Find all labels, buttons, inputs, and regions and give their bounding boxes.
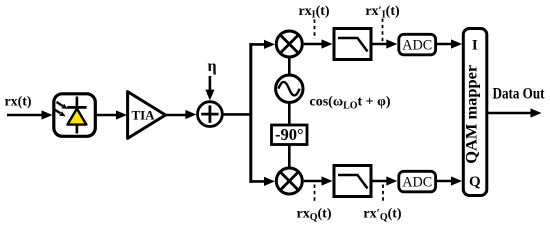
wire photodiode to TIA (95, 114, 118, 117)
mixer bottom (Q) (276, 168, 302, 194)
wire ADC to QAM mapper Q (436, 180, 454, 183)
wire mixer to oscillator (288, 57, 291, 75)
oscillator LO (276, 75, 303, 102)
svg-text:TIA: TIA (131, 107, 155, 122)
wire eta arrow into summer (209, 76, 212, 92)
svg-text:-90°: -90° (275, 125, 304, 144)
node rx_I(t) dashed probe line (314, 20, 316, 40)
svg-text:Data Out: Data Out (493, 86, 546, 103)
wire TIA to summer (166, 114, 188, 117)
wire top mixer to LPF (304, 43, 324, 46)
wire ADC to QAM mapper I (436, 43, 454, 46)
wire LPF to ADC bottom (371, 180, 389, 183)
svg-text:I: I (472, 38, 478, 54)
filter LPF bottom (334, 166, 371, 197)
QAM mapper box (463, 29, 487, 196)
mixer top (I) (276, 31, 302, 57)
wire oscillator to -90 box (288, 102, 291, 125)
wire split to bottom mixer (250, 180, 267, 183)
svg-text:ADC: ADC (402, 175, 432, 191)
svg-text:η: η (207, 58, 216, 75)
node rx'_Q(t) dashed probe line (382, 185, 384, 204)
summing node (198, 102, 223, 127)
phase shifter -90deg box (272, 125, 308, 145)
node rx_Q(t) dashed probe line (314, 185, 316, 204)
wire vertical split line (249, 43, 252, 183)
op-amp TIA (128, 92, 166, 139)
wire -90 box to bottom mixer (288, 145, 291, 169)
node rx'_I(t) dashed probe line (382, 19, 384, 42)
filter LPF top (334, 29, 371, 60)
ADC bottom (399, 171, 436, 192)
svg-text:Q: Q (469, 174, 481, 190)
svg-text:QAM mapper: QAM mapper (464, 65, 481, 164)
wire split to top mixer (250, 43, 267, 46)
svg-text:rx(t): rx(t) (5, 95, 32, 110)
ADC top (399, 34, 436, 55)
wire Data Out arrow (487, 112, 532, 115)
photodiode light arrows (54, 102, 68, 116)
wire LPF to ADC top (371, 43, 389, 46)
wire bottom mixer to LPF (304, 180, 324, 183)
svg-text:ADC: ADC (402, 38, 432, 54)
wire input to photodiode (7, 114, 43, 117)
wire summer to split (222, 113, 252, 116)
photodiode symbol (67, 97, 86, 134)
photodiode PD box (54, 94, 96, 137)
